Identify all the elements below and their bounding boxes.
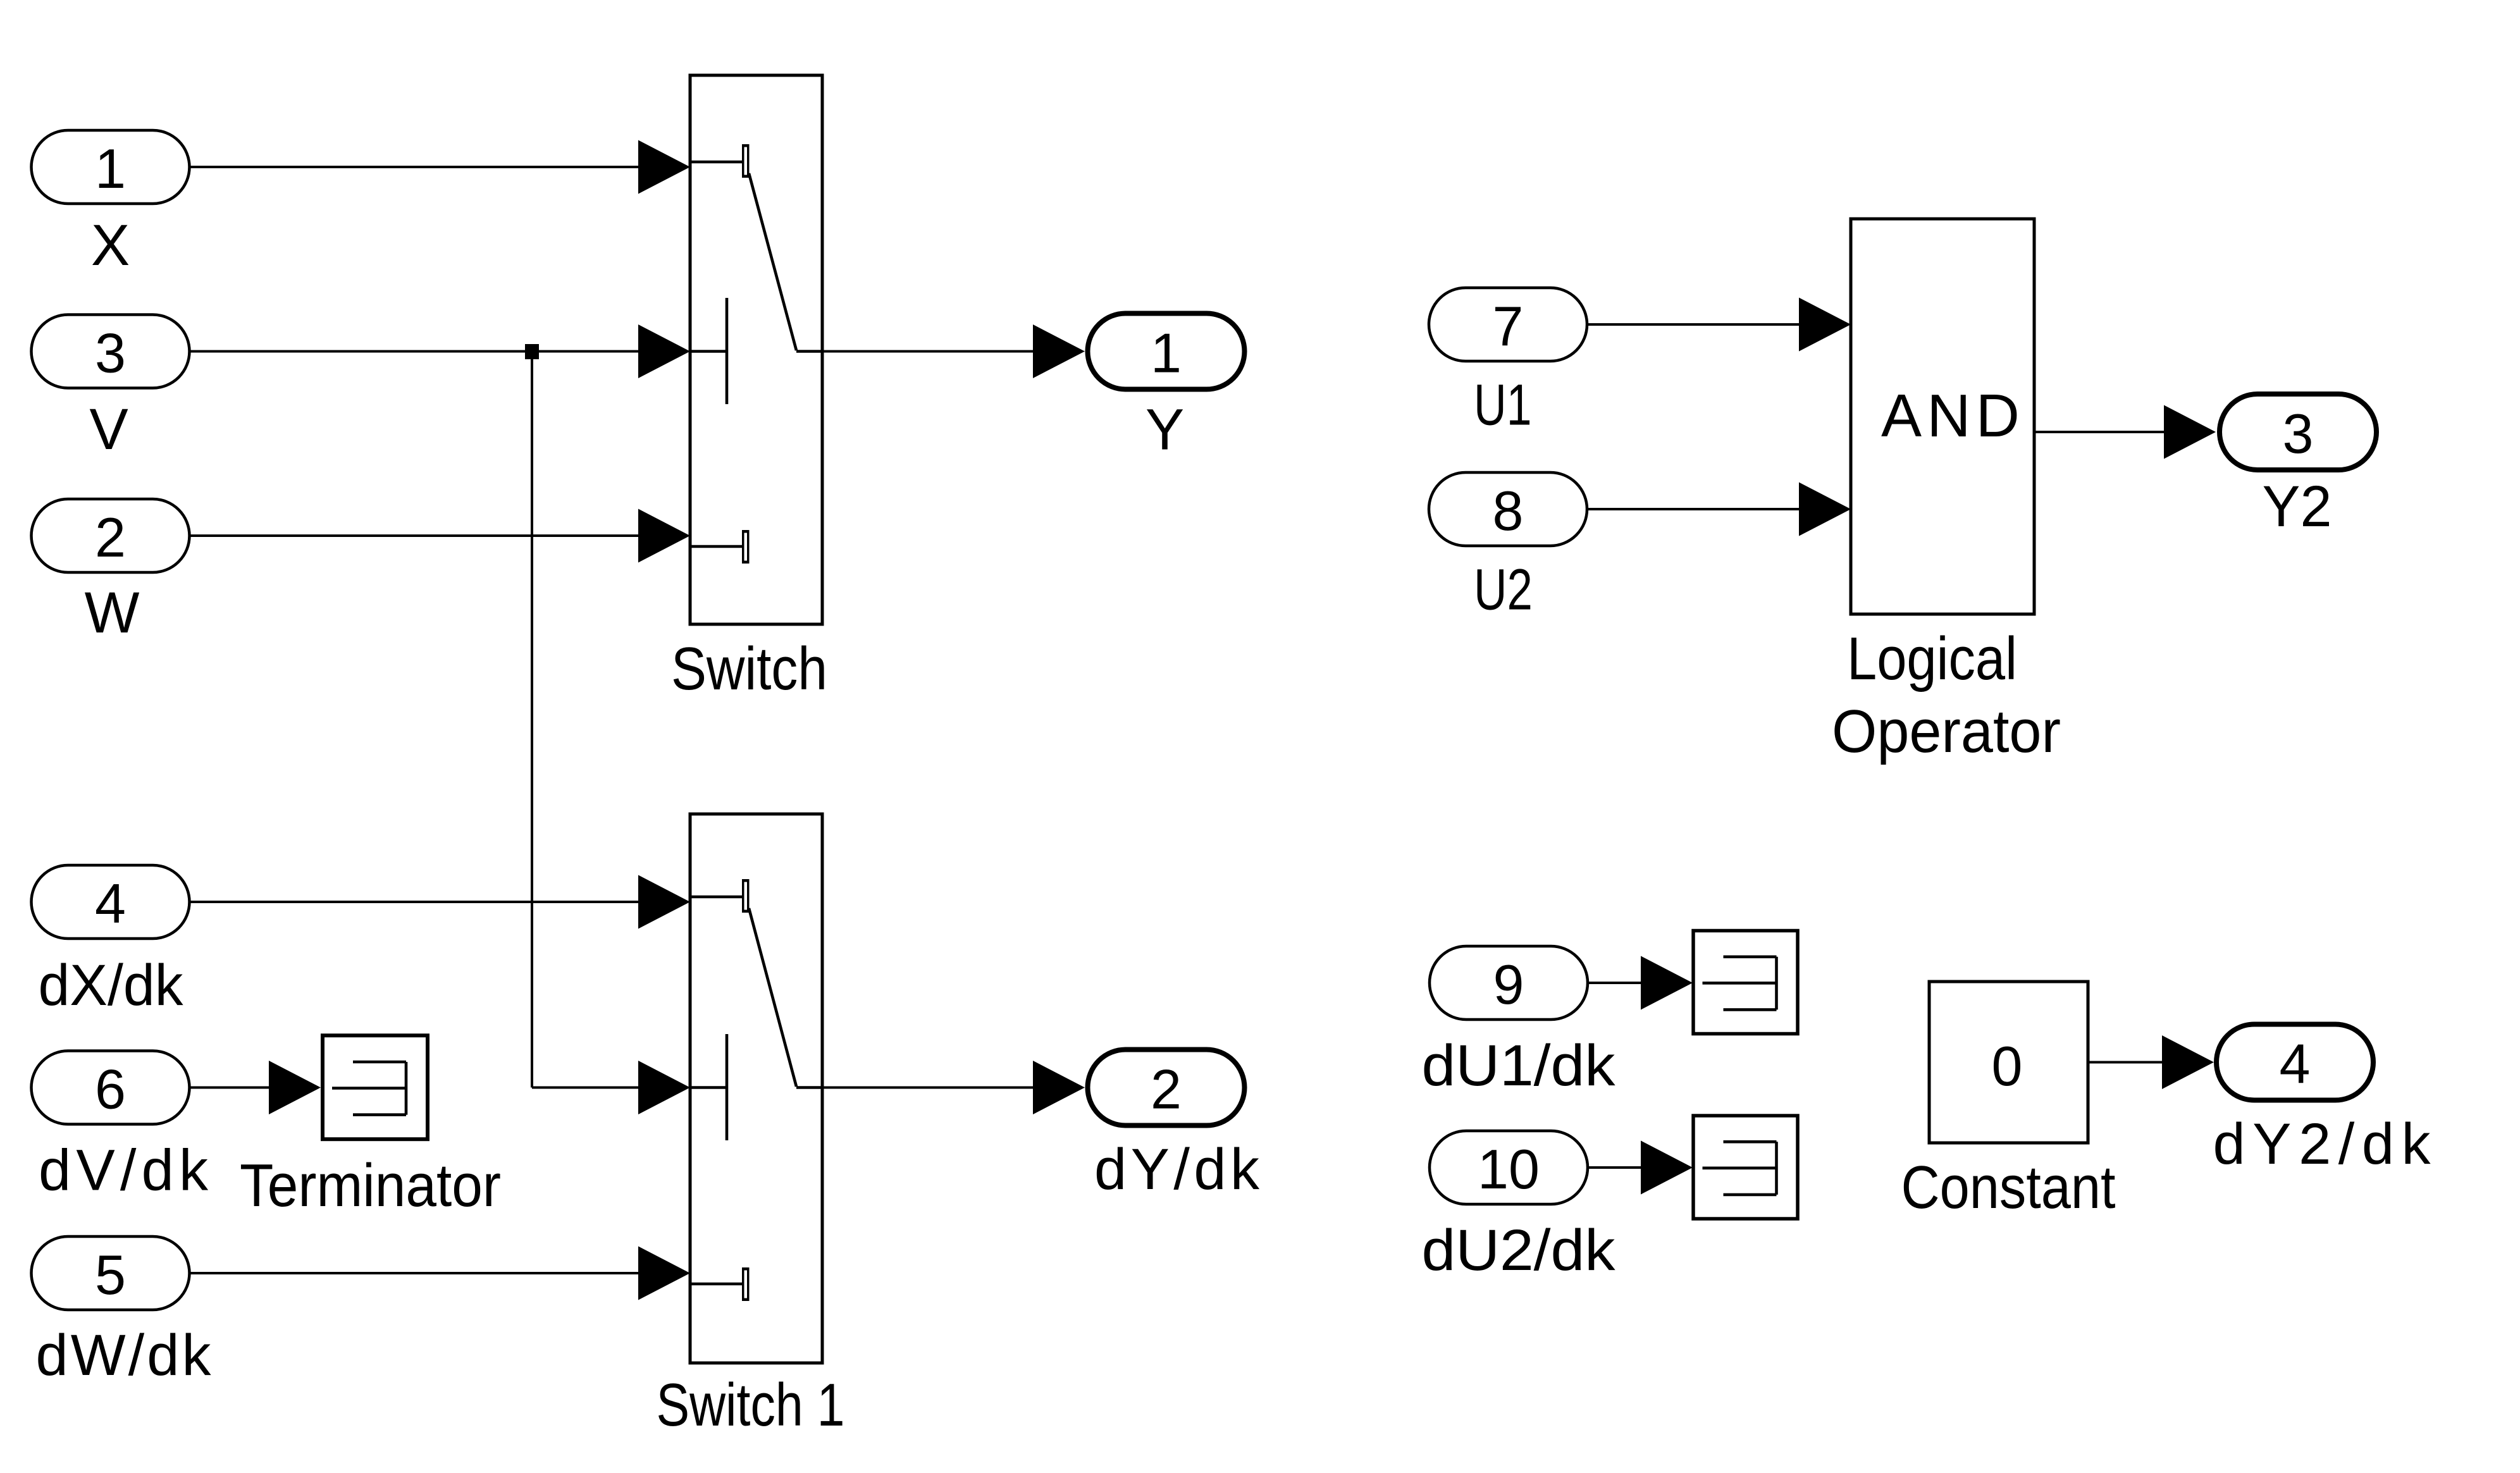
svg-text:2: 2 (95, 506, 126, 569)
svg-text:dX/dk: dX/dk (39, 953, 184, 1018)
svg-text:Switch 1: Switch 1 (657, 1371, 845, 1439)
svg-text:dU2/dk: dU2/dk (1422, 1218, 1616, 1283)
svg-text:U2: U2 (1474, 558, 1533, 622)
svg-text:dY/dk: dY/dk (1094, 1137, 1260, 1202)
svg-text:V: V (89, 397, 128, 462)
svg-text:X: X (91, 213, 130, 278)
svg-text:W: W (85, 581, 140, 645)
svg-text:AND: AND (1881, 382, 2020, 450)
svg-text:Constant: Constant (1901, 1154, 2116, 1221)
svg-text:9: 9 (1493, 953, 1524, 1016)
svg-text:Switch: Switch (671, 635, 827, 703)
svg-text:5: 5 (95, 1243, 126, 1306)
svg-text:3: 3 (2283, 402, 2314, 465)
svg-text:dU1/dk: dU1/dk (1422, 1033, 1616, 1098)
svg-text:10: 10 (1478, 1138, 1540, 1200)
svg-text:7: 7 (1493, 295, 1524, 357)
svg-text:Terminator: Terminator (240, 1152, 501, 1219)
svg-text:Y: Y (1146, 398, 1184, 462)
svg-text:4: 4 (95, 872, 126, 935)
svg-text:Y2: Y2 (2263, 474, 2332, 539)
svg-text:3: 3 (95, 322, 126, 385)
svg-text:2: 2 (1151, 1058, 1182, 1121)
svg-text:0: 0 (1992, 1035, 2023, 1097)
svg-text:dW/dk: dW/dk (36, 1323, 212, 1388)
svg-text:Operator: Operator (1832, 698, 2061, 765)
svg-text:dV/dk: dV/dk (39, 1138, 209, 1203)
svg-text:8: 8 (1493, 479, 1524, 542)
svg-text:Logical: Logical (1847, 625, 2017, 693)
svg-text:4: 4 (2280, 1033, 2311, 1095)
svg-text:U1: U1 (1474, 373, 1532, 438)
svg-text:6: 6 (95, 1058, 126, 1121)
svg-text:1: 1 (1151, 322, 1182, 385)
svg-text:1: 1 (95, 137, 126, 200)
